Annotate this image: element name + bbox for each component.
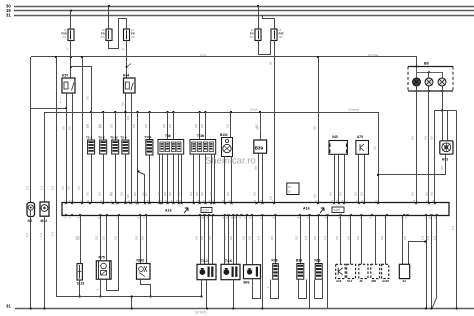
wire (66, 93, 68, 203)
connector T2-V (122, 140, 129, 154)
svg-text:M12: M12 (41, 219, 48, 223)
node (232, 307, 234, 309)
svg-text:0.5: 0.5 (66, 186, 70, 190)
connector A123 (382, 264, 389, 278)
svg-text:0.5: 0.5 (410, 192, 414, 196)
svg-text:30A: 30A (100, 36, 105, 39)
wire (309, 216, 311, 309)
node W112 tap (172, 111, 174, 113)
svg-text:0.5 ro/sw: 0.5 ro/sw (368, 54, 378, 57)
wire (260, 112, 262, 140)
svg-text:0.5: 0.5 (200, 124, 204, 128)
svg-text:1.5: 1.5 (257, 236, 261, 240)
wire (103, 112, 105, 140)
node W112 tap (90, 111, 92, 113)
wire K78 loop (271, 280, 279, 299)
ECU bottom pins (65, 214, 66, 216)
svg-text:0.5: 0.5 (423, 136, 427, 140)
node (79, 295, 81, 297)
svg-text:X1: X1 (403, 279, 407, 283)
node W112 tap (199, 111, 201, 113)
wire (91, 154, 93, 203)
svg-text:0.5: 0.5 (85, 192, 89, 196)
bus 30 (14, 6, 474, 8)
svg-text:0.5: 0.5 (98, 192, 102, 196)
svg-text:0.5: 0.5 (62, 126, 66, 130)
wire B43 loop (253, 279, 261, 299)
actuator A93 (440, 141, 453, 154)
svg-text:0.5: 0.5 (313, 236, 317, 240)
svg-text:0.5: 0.5 (429, 192, 433, 196)
wire (206, 280, 208, 309)
node (430, 307, 432, 309)
wires T10k top (199, 112, 201, 140)
svg-text:0.5: 0.5 (425, 192, 429, 196)
svg-text:1.0: 1.0 (451, 226, 455, 230)
node (261, 307, 263, 309)
svg-text:B34: B34 (296, 258, 302, 262)
node bus30 tap (108, 5, 110, 7)
connector 238 (371, 264, 380, 278)
wire (108, 6, 110, 29)
wire (103, 154, 105, 203)
svg-text:0.5: 0.5 (252, 192, 256, 196)
wire (274, 41, 276, 203)
svg-text:F6: F6 (131, 32, 135, 36)
wire (378, 112, 380, 203)
svg-text:0.5: 0.5 (176, 192, 180, 196)
wire (70, 11, 72, 29)
fuse F6 (124, 29, 130, 41)
svg-text:10A: 10A (62, 36, 67, 39)
svg-text:0.5: 0.5 (108, 192, 112, 196)
wire (259, 41, 271, 55)
svg-text:F25: F25 (61, 32, 67, 36)
wire (224, 157, 226, 203)
wire A93 bottom (379, 155, 446, 175)
node W112 tap (230, 111, 232, 113)
svg-text:0.5: 0.5 (312, 194, 316, 198)
wire (201, 280, 203, 297)
svg-text:A16: A16 (165, 209, 172, 213)
node (43, 307, 45, 309)
wire (231, 157, 233, 203)
node W112 tap (204, 111, 206, 113)
connector X1 (399, 264, 409, 278)
wire (334, 154, 336, 202)
svg-text:0.5: 0.5 (312, 126, 316, 130)
svg-text:F4: F4 (250, 32, 254, 36)
wire (30, 57, 32, 203)
svg-text:0.5: 0.5 (144, 124, 148, 128)
wire N75 loop (107, 216, 119, 291)
wire N142 ground jog (141, 280, 151, 297)
svg-text:0.5: 0.5 (113, 236, 117, 240)
wire (447, 111, 449, 141)
svg-text:1.0: 1.0 (420, 236, 424, 240)
svg-text:K78: K78 (272, 258, 278, 262)
wire (344, 154, 346, 202)
wire (72, 93, 74, 203)
svg-text:0.5: 0.5 (347, 236, 351, 240)
node W112 tap (148, 111, 150, 113)
connector T2-W (112, 140, 119, 154)
node (131, 295, 133, 297)
connector A1b (336, 264, 346, 278)
svg-text:0.5: 0.5 (194, 236, 198, 240)
node (81, 56, 83, 58)
svg-text:0.5: 0.5 (248, 236, 252, 240)
svg-text:B39: B39 (255, 145, 264, 150)
ECU A16 bar (62, 203, 449, 216)
svg-text:B102: B102 (220, 133, 228, 137)
svg-text:0.5: 0.5 (168, 192, 172, 196)
svg-text:30A: 30A (279, 36, 284, 39)
wire (79, 280, 81, 297)
wire (115, 112, 117, 140)
wire (252, 216, 254, 265)
wire X1 branch (409, 242, 426, 265)
wire (30, 217, 32, 309)
node (99, 295, 101, 297)
wire (208, 216, 210, 265)
svg-text:0.5: 0.5 (140, 236, 144, 240)
svg-text:0.5: 0.5 (110, 124, 114, 128)
svg-text:0.5: 0.5 (353, 192, 357, 196)
wire (358, 154, 360, 202)
svg-text:T2-J: T2-J (86, 135, 93, 139)
svg-text:A75: A75 (357, 135, 363, 139)
ECU label box S107 (201, 208, 212, 213)
svg-text:0.5: 0.5 (226, 192, 230, 196)
node W112 tap (166, 111, 168, 113)
node W112 tap (259, 111, 261, 113)
wire loop around A93 (435, 110, 457, 112)
wire (149, 155, 151, 203)
svg-text:0.5: 0.5 (294, 236, 298, 240)
wire lamp1 (416, 86, 418, 203)
wire (416, 57, 418, 67)
wire (350, 216, 352, 265)
bus 15 (14, 10, 474, 12)
svg-text:0.5: 0.5 (60, 186, 64, 190)
sensor B43 (244, 265, 261, 279)
svg-text:0.5: 0.5 (189, 192, 193, 196)
svg-text:0.5: 0.5 (120, 102, 124, 106)
svg-text:31: 31 (6, 13, 11, 18)
svg-text:S17: S17 (347, 279, 353, 283)
svg-text:0.5: 0.5 (194, 124, 198, 128)
svg-text:0.5: 0.5 (162, 124, 166, 128)
sensor B39 (254, 140, 267, 153)
wire (402, 216, 404, 265)
node (200, 295, 202, 297)
svg-text:0.5: 0.5 (120, 192, 124, 196)
label box FI/D (287, 183, 299, 195)
svg-text:0.5: 0.5 (335, 236, 339, 240)
svg-text:F5: F5 (101, 32, 105, 36)
wire (236, 216, 238, 265)
svg-text:0.5: 0.5 (132, 124, 136, 128)
bus 31 (14, 15, 474, 17)
svg-text:0.5: 0.5 (328, 192, 332, 196)
node W57 junction (70, 56, 72, 58)
svg-text:0.5: 0.5 (410, 136, 414, 140)
svg-text:0.5: 0.5 (95, 236, 99, 240)
svg-text:1.5: 1.5 (304, 236, 308, 240)
node bus15 tap (70, 10, 72, 12)
wire (126, 41, 128, 79)
connector T2-J (88, 140, 95, 154)
wire (91, 112, 93, 140)
svg-text:0.5: 0.5 (440, 166, 444, 170)
svg-text:0.5: 0.5 (195, 192, 199, 196)
fuse F25 (68, 29, 74, 41)
wire (442, 111, 444, 141)
wire (318, 57, 320, 203)
svg-text:30: 30 (268, 62, 272, 65)
wire (233, 216, 235, 265)
wire (44, 216, 46, 308)
ECU arrow K (184, 208, 188, 213)
wire diagonal (432, 297, 437, 309)
wire (100, 279, 102, 296)
wire (230, 112, 232, 138)
svg-text:T4-J: T4-J (201, 259, 208, 263)
svg-text:0.5: 0.5 (356, 236, 360, 240)
wire (262, 153, 264, 202)
svg-text:2.5: 2.5 (268, 196, 272, 200)
svg-text:0.5: 0.5 (200, 236, 204, 240)
svg-text:0.5: 0.5 (76, 186, 80, 190)
node W112 tap (124, 111, 126, 113)
svg-text:0.5: 0.5 (163, 192, 167, 196)
wire lamp3 (442, 86, 444, 111)
fuse F4 (255, 29, 261, 41)
wire (212, 216, 214, 265)
node (55, 56, 57, 58)
svg-text:FI: FI (288, 185, 291, 189)
svg-text:0.5: 0.5 (241, 236, 245, 240)
wire (149, 112, 151, 140)
svg-text:S107: S107 (203, 209, 210, 213)
svg-text:0.5: 0.5 (270, 236, 274, 240)
svg-text:A123: A123 (382, 279, 389, 283)
svg-text:0.5: 0.5 (380, 236, 384, 240)
wire (318, 216, 320, 264)
svg-text:A16: A16 (303, 207, 310, 211)
svg-text:0.5: 0.5 (209, 192, 213, 196)
svg-text:0.5: 0.5 (142, 192, 146, 196)
node (131, 307, 133, 309)
B8 inner wiring (416, 66, 418, 68)
connector J3 (359, 264, 368, 278)
wires T10k bottom (193, 154, 195, 202)
wire W57 (31, 56, 417, 58)
ECU label box S107 right (332, 207, 344, 213)
wire (361, 216, 363, 265)
svg-text:T6b: T6b (165, 134, 171, 138)
wire (100, 216, 102, 261)
fuse F5 (106, 29, 112, 41)
svg-text:T4-K: T4-K (225, 259, 233, 263)
wire (125, 154, 127, 203)
wire (115, 154, 117, 203)
wire (340, 216, 342, 265)
connector S17 (347, 264, 356, 278)
wire (131, 297, 133, 309)
svg-text:0.5 sw: 0.5 sw (250, 109, 257, 112)
node bus30 tap (257, 5, 259, 7)
wire (44, 112, 46, 202)
node (424, 240, 426, 242)
wire (125, 93, 127, 140)
svg-text:0.5 sw/ws: 0.5 sw/ws (348, 109, 360, 112)
connector T2-K (100, 140, 107, 154)
wire (258, 6, 260, 29)
svg-text:G6: G6 (28, 219, 33, 223)
svg-text:0.5: 0.5 (338, 192, 342, 196)
wire (140, 216, 142, 264)
svg-text:B8: B8 (424, 62, 429, 66)
svg-text:(97890): (97890) (195, 311, 207, 315)
svg-text:1.5: 1.5 (39, 186, 43, 190)
wire (137, 112, 139, 203)
connector S123 (77, 264, 82, 280)
svg-text:X40: X40 (332, 135, 338, 139)
svg-text:0.5: 0.5 (225, 124, 229, 128)
svg-text:1.0: 1.0 (25, 186, 29, 190)
svg-text:0.5: 0.5 (134, 236, 138, 240)
wire (146, 216, 148, 264)
svg-text:31: 31 (6, 304, 11, 309)
svg-text:T10a: T10a (144, 135, 151, 139)
svg-text:0.5: 0.5 (223, 236, 227, 240)
svg-text:0.5: 0.5 (372, 146, 376, 150)
wire (426, 216, 428, 309)
svg-text:30A: 30A (249, 36, 254, 39)
svg-text:0.5: 0.5 (256, 126, 260, 130)
svg-text:0.5: 0.5 (101, 236, 105, 240)
node (30, 307, 32, 309)
pump M12 (40, 202, 49, 216)
svg-text:T2-W: T2-W (110, 135, 118, 139)
svg-text:0.5: 0.5 (200, 192, 204, 196)
fuel pump G6 (27, 203, 35, 217)
wire (233, 280, 235, 309)
ECU arrow K right (320, 208, 324, 213)
ground bus 31 (15, 308, 474, 310)
wire (327, 216, 329, 309)
svg-text:N18: N18 (315, 258, 321, 262)
wire (364, 154, 366, 202)
wire (431, 216, 433, 309)
svg-text:B43: B43 (244, 281, 250, 285)
connector T10a (146, 140, 153, 156)
wire B34 loop (299, 280, 307, 299)
svg-text:0.5: 0.5 (126, 116, 130, 120)
wire (246, 216, 248, 265)
node (425, 307, 427, 309)
wire (109, 19, 127, 49)
svg-text:1.0: 1.0 (25, 233, 29, 237)
svg-text:1.0: 1.0 (39, 233, 43, 237)
svg-text:0.5: 0.5 (126, 194, 130, 198)
svg-text:1.0: 1.0 (50, 186, 54, 190)
node W112 tap (114, 111, 116, 113)
node (377, 174, 379, 176)
svg-text:0.5: 0.5 (207, 236, 211, 240)
wire (106, 216, 108, 261)
ground collector wire (56, 296, 202, 298)
wire (228, 216, 230, 265)
svg-text:0.5: 0.5 (360, 192, 364, 196)
svg-text:1.0: 1.0 (426, 236, 430, 240)
svg-text:1.0: 1.0 (50, 232, 54, 236)
node (317, 56, 319, 58)
svg-text:0.5: 0.5 (85, 96, 89, 100)
wire (200, 216, 202, 265)
svg-text:N142: N142 (137, 258, 145, 262)
wire with diagonal (436, 216, 438, 297)
svg-text:0.5: 0.5 (99, 124, 103, 128)
wire (263, 16, 275, 29)
svg-text:A16: A16 (336, 279, 342, 283)
svg-text:Shemicar.ro: Shemicar.ro (205, 156, 256, 167)
svg-text:0.5: 0.5 (86, 124, 90, 128)
wire (56, 57, 58, 297)
wire (224, 216, 226, 265)
svg-text:0.5: 0.5 (403, 236, 407, 240)
svg-text:S107: S107 (334, 208, 341, 212)
wire (300, 216, 302, 264)
node W112 tap (136, 111, 138, 113)
svg-text:A93: A93 (442, 158, 448, 162)
wire right drop (456, 111, 458, 309)
svg-text:1.0: 1.0 (433, 236, 437, 240)
svg-text:0.5: 0.5 (229, 236, 233, 240)
svg-text:0.5: 0.5 (77, 236, 81, 240)
annotation arrow (126, 66, 128, 68)
wire (82, 57, 84, 203)
wire (70, 41, 72, 79)
node (65, 107, 67, 109)
svg-text:N75: N75 (99, 256, 105, 260)
wire (375, 216, 377, 265)
wire (434, 111, 436, 203)
wire (338, 154, 340, 202)
wires T6b top (167, 112, 169, 140)
svg-text:K57: K57 (62, 74, 68, 78)
svg-text:0.5: 0.5 (429, 136, 433, 140)
wire K57 to T2-J (70, 66, 72, 68)
node (149, 295, 151, 297)
wire (204, 216, 206, 265)
svg-text:0.5: 0.5 (157, 192, 161, 196)
svg-text:0.5: 0.5 (133, 192, 137, 196)
node (441, 109, 443, 111)
wire W112 (45, 112, 378, 114)
wire (131, 93, 133, 203)
wire lamp2 (428, 86, 430, 203)
svg-text:T10k: T10k (197, 134, 204, 138)
svg-text:238: 238 (371, 279, 376, 283)
svg-text:K64: K64 (123, 74, 129, 78)
svg-text:15A: 15A (131, 36, 136, 39)
wire (80, 216, 82, 264)
node (456, 307, 458, 309)
svg-text:1.5: 1.5 (323, 236, 327, 240)
